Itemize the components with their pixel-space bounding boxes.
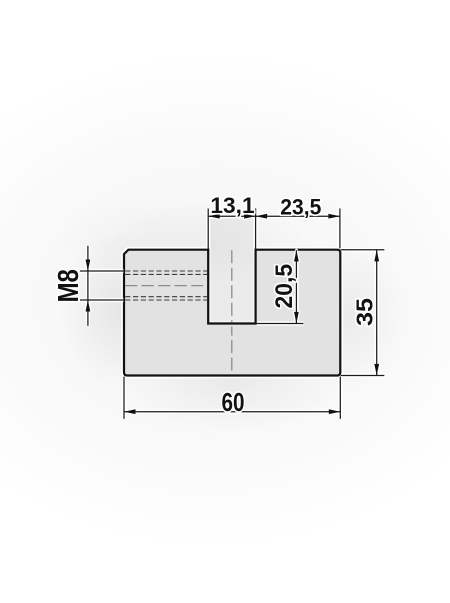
- svg-text:13,1: 13,1: [210, 193, 254, 218]
- svg-text:20,5: 20,5: [271, 264, 298, 309]
- svg-text:35: 35: [351, 298, 377, 326]
- svg-text:M8: M8: [53, 269, 85, 303]
- svg-text:60: 60: [222, 387, 245, 417]
- svg-text:23,5: 23,5: [280, 194, 321, 219]
